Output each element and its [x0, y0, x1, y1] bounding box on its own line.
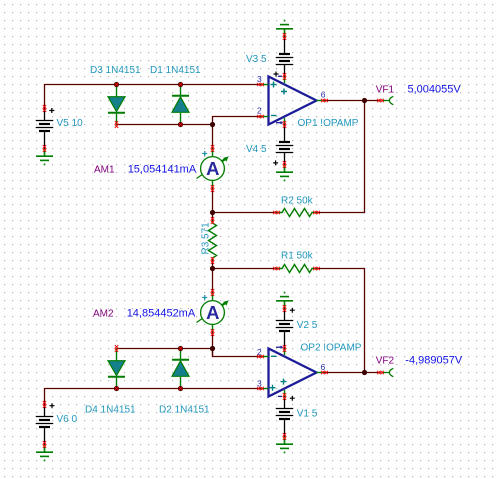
svg-text:V4 5: V4 5	[246, 144, 267, 155]
svg-text:R1 50k: R1 50k	[281, 251, 314, 262]
svg-text:OP2 !OPAMP: OP2 !OPAMP	[301, 343, 362, 354]
svg-text:3: 3	[257, 379, 262, 389]
svg-text:14,854452mA: 14,854452mA	[127, 308, 196, 320]
svg-text:V6 0: V6 0	[57, 414, 78, 425]
svg-text:2: 2	[257, 347, 262, 357]
svg-text:D2 1N4151: D2 1N4151	[159, 405, 210, 416]
svg-text:R2 50k: R2 50k	[281, 196, 314, 207]
svg-text:V5 10: V5 10	[57, 118, 84, 129]
svg-text:AM2: AM2	[93, 309, 114, 320]
svg-text:5,004055V: 5,004055V	[408, 84, 462, 96]
svg-text:AM1: AM1	[94, 165, 115, 176]
svg-text:-4,989057V: -4,989057V	[405, 355, 463, 367]
svg-text:D4 1N4151: D4 1N4151	[85, 405, 136, 416]
svg-text:OP1 !OPAMP: OP1 !OPAMP	[298, 118, 359, 129]
svg-text:D3 1N4151: D3 1N4151	[90, 65, 141, 76]
svg-text:6: 6	[321, 362, 326, 372]
svg-text:2: 2	[257, 106, 262, 116]
svg-text:6: 6	[321, 90, 326, 100]
svg-text:D1 1N4151: D1 1N4151	[150, 65, 201, 76]
svg-text:V3 5: V3 5	[246, 54, 267, 65]
svg-text:15,054141mA: 15,054141mA	[128, 164, 197, 176]
svg-text:VF1: VF1	[376, 85, 395, 96]
svg-text:V2 5: V2 5	[297, 320, 318, 331]
svg-text:VF2: VF2	[376, 356, 395, 367]
svg-text:3: 3	[257, 74, 262, 84]
svg-text:R3 571: R3 571	[200, 222, 211, 255]
svg-text:V1 5: V1 5	[297, 409, 318, 420]
